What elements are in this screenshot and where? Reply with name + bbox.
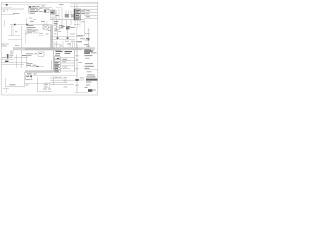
hatched connector C201	[65, 14, 69, 17]
relay R2 wires	[11, 25, 13, 36]
splice S4	[67, 37, 69, 39]
wires right upper-mid	[84, 20, 86, 36]
fuse/relay box FB1	[74, 9, 81, 20]
harness vertical strip	[51, 25, 53, 48]
wire bottom center	[38, 91, 53, 93]
wire stub	[26, 18, 28, 25]
branch wires below bus	[52, 20, 54, 28]
wire right vertical	[74, 50, 76, 72]
switch box SW1	[51, 10, 56, 14]
wire bus C upper-left	[2, 14, 16, 16]
labels below band2	[27, 72, 32, 75]
connector squares upper center	[56, 27, 60, 29]
bottom-left wires	[5, 78, 7, 87]
cross wires center	[50, 36, 75, 38]
component box B2	[34, 30, 39, 33]
label bar	[13, 12, 20, 15]
ignition feed wires	[52, 9, 54, 20]
splice S5	[14, 24, 16, 26]
wires from CS2	[60, 65, 74, 67]
component box center	[38, 52, 44, 56]
ground wire left	[8, 38, 22, 40]
left connector box lower	[10, 50, 14, 54]
bus wire B	[50, 19, 84, 21]
right text column upper	[85, 49, 94, 52]
wire bus A	[2, 8, 25, 10]
wire right lower	[84, 69, 98, 71]
ground distribution block	[7, 54, 9, 59]
terminal mark	[3, 10, 5, 13]
center text rows lower	[26, 52, 33, 55]
module box M1	[26, 75, 32, 79]
wires from M1	[32, 75, 78, 77]
harness band main	[13, 48, 25, 51]
fusible link box	[40, 7, 52, 9]
fusible link labels	[42, 5, 45, 8]
wires above FB1	[74, 4, 76, 9]
center lower text rows 2	[27, 62, 33, 65]
wire drop right-center	[76, 27, 78, 42]
labels above C3	[43, 88, 47, 91]
wire from C2	[48, 26, 51, 28]
label right of pigtails	[81, 20, 85, 23]
labels right-center	[70, 33, 75, 36]
wires dropping center	[57, 29, 59, 37]
splice S3	[57, 37, 59, 39]
harness band 2	[25, 71, 53, 73]
wire from pigtail	[79, 79, 85, 81]
title label top center	[59, 3, 64, 6]
splice cluster bottom right	[85, 86, 88, 89]
wire branch A	[2, 6, 13, 8]
connector C2 with X	[43, 25, 48, 29]
wires from CS1	[60, 57, 74, 59]
faint feed line	[56, 6, 62, 8]
labels above band	[67, 43, 71, 46]
main harness vertical right	[76, 44, 78, 93]
stray marks center upper	[29, 17, 33, 20]
bottom center parallel wires	[53, 76, 55, 85]
connector stack CS2	[54, 65, 60, 67]
labels below band	[56, 51, 63, 52]
connector C3	[44, 83, 50, 87]
right text rows bottom	[87, 74, 95, 77]
splice S6	[26, 24, 28, 26]
ground G100	[5, 61, 8, 62]
right edge wire labels	[86, 9, 90, 12]
wire center low	[30, 66, 44, 68]
switch box SW2	[51, 14, 56, 18]
right edge branch wires	[84, 5, 98, 7]
splice S1	[6, 4, 8, 6]
fuse legend text block	[28, 6, 30, 14]
labels above parallel wires	[55, 76, 58, 79]
wire end labels	[64, 76, 68, 79]
wire row y24.5	[10, 24, 52, 26]
text rows mid-left column	[27, 24, 34, 27]
connector stack CS1	[54, 57, 60, 59]
antenna wire right	[88, 28, 90, 48]
wire hot feed top	[2, 4, 48, 6]
left label rows	[2, 43, 6, 46]
pin labels near harness	[75, 54, 79, 57]
wire left edge center	[24, 30, 26, 44]
labels center sparse	[39, 32, 43, 35]
dark connector block	[86, 79, 97, 81]
label right of CS1	[62, 58, 67, 61]
wire labels below bus	[54, 20, 59, 23]
FB1 lower pigtails	[74, 20, 76, 28]
center-right dark text rows	[55, 49, 61, 52]
wires into band from above	[53, 41, 55, 48]
labels near strip	[54, 24, 58, 27]
wire bottom right	[75, 92, 89, 94]
right text column lower	[85, 62, 93, 65]
labels right of FB1	[81, 9, 85, 12]
wire drop left	[4, 20, 6, 26]
wire stubs above C2	[44, 21, 46, 26]
label bars right mid	[77, 35, 84, 36]
small wire bottom-left corner	[3, 87, 10, 89]
connector pigtail right	[75, 79, 79, 81]
lower-left grid wires	[14, 57, 28, 59]
